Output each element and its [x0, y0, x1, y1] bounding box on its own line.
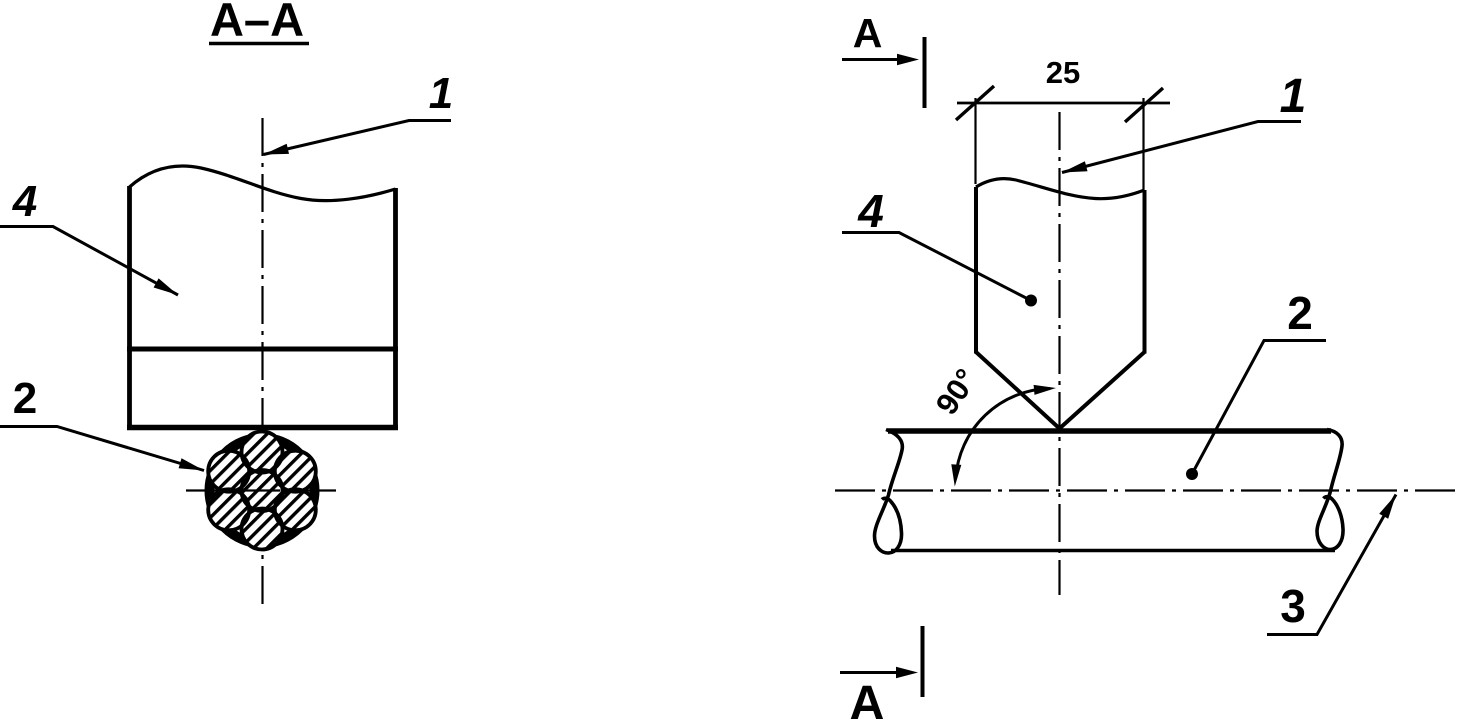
part 2 cable cross-section: outer circle — [210, 438, 315, 543]
section plane bar (bottom) — [921, 626, 925, 697]
centerline horizontal (rod axis) — [835, 489, 1458, 491]
leader 4 dot — [1025, 295, 1037, 307]
extension line left — [974, 98, 976, 184]
centerline horizontal through circle — [186, 489, 336, 491]
left edge — [974, 187, 978, 354]
svg-text:4: 4 — [857, 185, 884, 237]
part 4 body (electrode holder, left view) — [127, 166, 398, 429]
part 2 rod bottom edge — [891, 549, 1335, 553]
svg-text:1: 1 — [1280, 70, 1307, 123]
arrowhead leader 1 (right) — [1062, 161, 1088, 172]
svg-text:A: A — [849, 677, 884, 719]
svg-text:3: 3 — [1280, 580, 1306, 632]
section plane bar (top) — [923, 37, 927, 108]
part 2 rod top edge — [888, 428, 1331, 434]
section arrow (top) — [842, 58, 903, 61]
svg-text:1: 1 — [429, 69, 453, 118]
svg-text:25: 25 — [1046, 55, 1080, 90]
strand upper-left outline — [208, 451, 249, 492]
dimension tick right — [1125, 88, 1163, 122]
leader 4 (left) — [0, 227, 178, 296]
right edge — [1143, 190, 1147, 354]
strand bottom outline — [242, 509, 283, 550]
V point right slope — [1060, 352, 1145, 429]
svg-text:A: A — [853, 10, 883, 56]
arc arrowhead bottom — [951, 464, 961, 486]
rod break curl left — [875, 430, 903, 554]
leader 2 (left) — [0, 427, 204, 471]
strand center outline — [208, 432, 316, 550]
leader 3 — [1267, 495, 1396, 635]
arrowhead leader 2 (left) — [179, 458, 204, 470]
arc arrowhead top — [1034, 385, 1056, 395]
dimension line — [957, 102, 1170, 105]
strand lower-left outline — [208, 489, 249, 530]
strand top outline — [242, 432, 283, 473]
arrowhead leader 4 (left) — [154, 278, 178, 295]
svg-text:2: 2 — [13, 374, 37, 423]
break wave top — [130, 166, 396, 201]
strand upper-right outline — [275, 451, 316, 492]
svg-text:A–A: A–A — [210, 0, 304, 46]
break wave top — [976, 179, 1145, 199]
V point left slope — [976, 352, 1060, 429]
leader 1 (right) — [1062, 122, 1301, 173]
leader 2 dot — [1186, 468, 1198, 480]
arrowhead leader 3 — [1379, 495, 1396, 519]
arrowhead leader 1 (left) — [264, 144, 290, 155]
centerline vertical left — [261, 118, 263, 610]
leader 1 (left) — [264, 121, 452, 155]
svg-text:2: 2 — [1287, 287, 1313, 339]
divider line — [127, 347, 398, 352]
strand hatch fills — [208, 432, 316, 550]
bottom edge — [127, 425, 398, 431]
right edge — [393, 188, 398, 430]
leader 2 (right) — [1192, 341, 1326, 475]
centerline vertical (tool axis) — [1058, 112, 1060, 595]
title underline — [209, 42, 309, 46]
rod break curl right — [1317, 430, 1343, 550]
left edge — [127, 186, 132, 430]
svg-text:4: 4 — [12, 177, 37, 226]
angle arc 90deg — [956, 389, 1050, 479]
dimension tick left — [956, 86, 994, 120]
section arrow (bottom) — [840, 671, 902, 674]
leader 4 (right) — [842, 233, 1031, 301]
strand lower-right outline — [275, 489, 316, 530]
extension line right — [1142, 98, 1144, 192]
part 4 body (electrode, right view) — [976, 179, 1145, 429]
